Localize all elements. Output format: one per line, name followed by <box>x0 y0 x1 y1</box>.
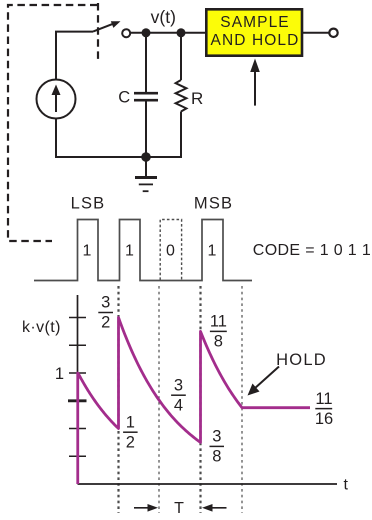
x-axis <box>78 483 338 485</box>
junction node at resistor <box>177 28 186 37</box>
y-axis <box>77 295 79 484</box>
svg-text:SAMPLE: SAMPLE <box>220 14 290 31</box>
svg-text:HOLD: HOLD <box>276 351 327 369</box>
switch contact (open circle) <box>122 29 130 37</box>
pulse train waveform <box>34 220 252 281</box>
fraction 3/4 <box>174 376 183 414</box>
svg-text:2: 2 <box>101 314 110 332</box>
resistor R1 branch wire bottom <box>180 112 182 159</box>
wire: block output <box>302 32 329 34</box>
timing line t1 (bold dotted) <box>117 286 119 513</box>
HOLD arrow <box>254 367 279 390</box>
svg-text:8: 8 <box>214 333 223 351</box>
timing line t3 (bold dotted) <box>199 286 201 513</box>
y-axis ticks <box>68 318 87 457</box>
fraction 3/2 <box>101 294 110 332</box>
dashed zero pulse <box>160 220 181 281</box>
switch arm SW <box>93 24 113 32</box>
timing line t2 (dotted) <box>158 286 160 513</box>
svg-text:1: 1 <box>125 243 134 260</box>
sample-and-hold block U1 <box>206 9 302 55</box>
junction node at capacitor <box>142 28 151 37</box>
fraction 3/8 <box>212 428 221 466</box>
svg-text:0: 0 <box>166 243 175 260</box>
svg-text:T: T <box>174 500 184 517</box>
svg-text:C: C <box>118 88 130 106</box>
svg-text:R: R <box>191 89 203 108</box>
resistor R1 zigzag <box>176 80 187 112</box>
svg-text:3: 3 <box>212 428 221 446</box>
current source I1 <box>37 80 76 119</box>
capacitor C1 branch wire top <box>145 33 147 92</box>
ground <box>135 157 157 191</box>
svg-text:1: 1 <box>126 413 135 431</box>
capacitor C1 plates <box>134 92 158 95</box>
period T arrows <box>134 507 152 509</box>
svg-text:1: 1 <box>55 365 64 383</box>
timing line t4 (dotted) <box>241 286 243 513</box>
svg-text:16: 16 <box>315 410 333 428</box>
svg-text:CODE = 1 0 1 1: CODE = 1 0 1 1 <box>253 242 371 259</box>
fraction 11/16 <box>315 390 333 428</box>
curve k.v(t) <box>78 318 310 485</box>
svg-text:8: 8 <box>212 448 221 466</box>
wire: source top to switch <box>56 32 93 80</box>
fraction 11/8 <box>210 313 227 351</box>
resistor R1 branch wire top <box>180 33 182 80</box>
wire: contact to sample-and-hold input <box>130 32 206 34</box>
svg-text:t: t <box>344 477 349 494</box>
svg-text:MSB: MSB <box>194 194 233 212</box>
svg-text:3: 3 <box>174 376 183 394</box>
control arrow into block <box>254 70 256 106</box>
svg-text:4: 4 <box>174 396 183 414</box>
svg-text:1: 1 <box>208 243 217 260</box>
dashed control outline box <box>8 3 98 241</box>
svg-text:3: 3 <box>101 294 110 312</box>
output terminal (open circle) <box>329 29 337 37</box>
svg-text:k·v(t): k·v(t) <box>22 319 61 336</box>
bottom wire <box>56 118 181 157</box>
svg-text:11: 11 <box>315 390 332 408</box>
fraction 1/2 <box>126 413 135 451</box>
capacitor C1 branch wire bottom <box>145 102 147 158</box>
svg-text:v(t): v(t) <box>151 7 176 27</box>
junction node at ground <box>141 152 151 162</box>
svg-text:1: 1 <box>83 243 92 260</box>
svg-text:11: 11 <box>210 313 227 331</box>
svg-text:AND HOLD: AND HOLD <box>211 32 300 49</box>
svg-text:LSB: LSB <box>71 194 106 212</box>
svg-text:2: 2 <box>126 433 135 451</box>
